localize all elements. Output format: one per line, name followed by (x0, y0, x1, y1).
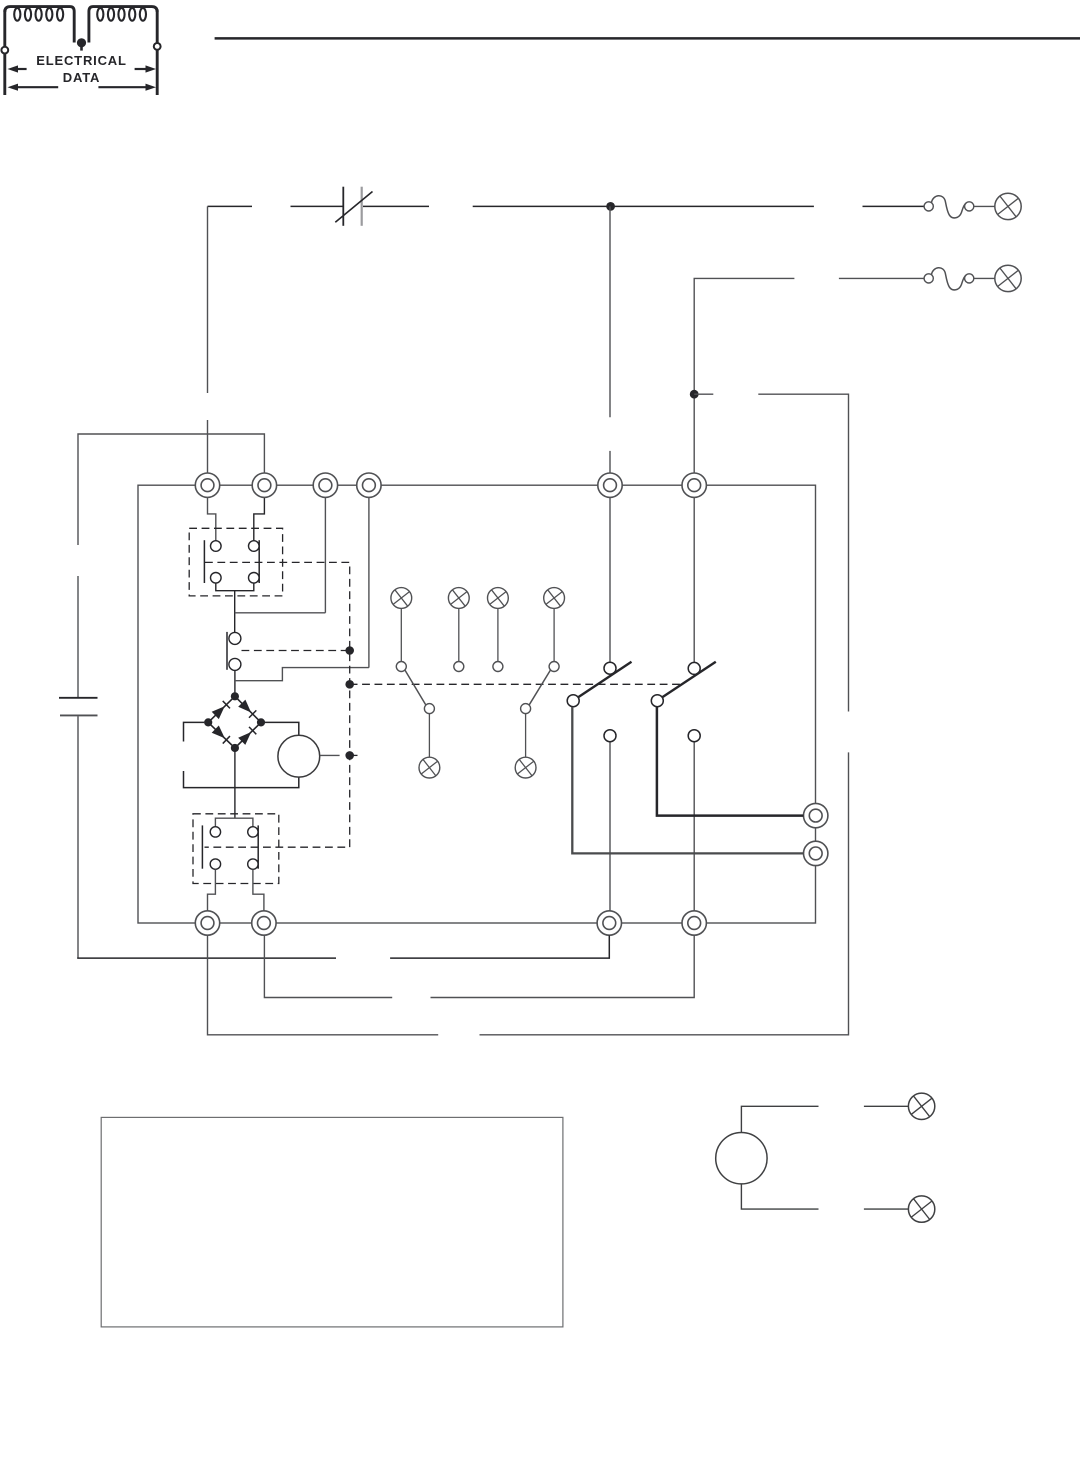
svg-text:ELECTRICAL: ELECTRICAL (36, 53, 127, 68)
svg-text:DATA: DATA (63, 70, 100, 85)
